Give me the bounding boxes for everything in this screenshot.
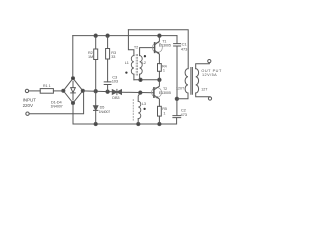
label D5 1N4007 (99, 106, 111, 114)
input terminal upper (25, 89, 28, 92)
resistor R3 (106, 36, 110, 82)
capacitor C1 (174, 36, 181, 99)
wire input lower to bridge right corner (29, 92, 83, 114)
node rail junction T1 collector (158, 34, 161, 37)
svg-text:DB3: DB3 (112, 96, 119, 100)
node rail D5 (94, 122, 97, 125)
node rail R5 (158, 122, 161, 125)
svg-text:1: 1 (163, 111, 165, 115)
svg-text:L2: L2 (142, 61, 146, 65)
phase dot L1 (125, 71, 127, 73)
transistor T2 (152, 80, 162, 107)
label C3 103 (112, 74, 119, 83)
diode D5 (94, 91, 98, 124)
transistor T1 (152, 36, 162, 64)
svg-text:12T: 12T (201, 88, 208, 92)
svg-text:120T: 120T (176, 87, 185, 91)
svg-text:1N4007: 1N4007 (51, 104, 63, 108)
svg-text:L3: L3 (142, 102, 146, 106)
node midpoint M (158, 78, 161, 81)
svg-text:220V: 220V (23, 103, 34, 108)
node C1 C2 primary (175, 97, 178, 100)
label R2 1M (88, 51, 93, 59)
label INPUT 220V (23, 98, 37, 108)
resistor R5 (158, 106, 162, 124)
svg-text:L1: L1 (125, 61, 129, 65)
wire bottom rail (73, 123, 176, 125)
inductor L2 (140, 48, 155, 80)
svg-text:1M: 1M (88, 55, 93, 59)
resistor R2 (94, 36, 98, 91)
node rail L3 (137, 122, 140, 125)
wire A trigger line (83, 91, 154, 93)
svg-text:103: 103 (112, 78, 119, 83)
core T3 (191, 68, 193, 95)
wire top rail (73, 35, 177, 37)
wire bridge bottom to ground rail (72, 103, 74, 124)
node wire A L3 (139, 91, 142, 94)
node rail junction R2 (94, 34, 97, 37)
svg-text:473: 473 (181, 47, 188, 52)
capacitor C2 (173, 99, 181, 124)
svg-text:1N4007: 1N4007 (99, 110, 111, 114)
diac DB3 (112, 89, 121, 94)
svg-text:T2: T2 (134, 46, 138, 50)
wire primary bottom to divider node (177, 93, 188, 99)
wire input upper (29, 90, 41, 92)
input terminal lower (26, 112, 29, 115)
node wire A C3 (106, 90, 109, 93)
transformer T3 secondary 12T (196, 63, 210, 97)
node midpoint L2 (139, 78, 142, 81)
wire R1 to bridge (53, 90, 63, 92)
inductor L1 (128, 30, 134, 80)
core dash L3 (132, 100, 134, 121)
core dash L1 L2 (136, 54, 137, 76)
wire midpoint (134, 79, 160, 81)
label D1-D4 1N4007 (51, 99, 63, 108)
svg-text:E13005: E13005 (159, 91, 171, 95)
label OUT PUT 12V/5A (201, 69, 222, 77)
node wire A R2/D5 (94, 90, 97, 93)
phase dot L3 (143, 108, 145, 110)
transformer T3 primary 120T (185, 69, 188, 93)
resistor R4 (158, 64, 162, 80)
svg-text:33: 33 (111, 55, 115, 59)
svg-text:12V/5A: 12V/5A (202, 73, 217, 77)
label R5 1 (162, 107, 167, 115)
inductor L3 (138, 93, 141, 124)
svg-text:473: 473 (181, 112, 188, 117)
label R3 33 (111, 51, 116, 59)
capacitor C3 (104, 82, 111, 92)
bridge rectifier D1-D4 (62, 77, 85, 105)
wire top box (128, 30, 188, 69)
svg-text:E13005: E13005 (159, 43, 171, 47)
label T2 13005 (159, 87, 171, 95)
label C1 473 (181, 42, 188, 52)
wire left drop to bridge (72, 36, 74, 79)
svg-text:R1 1: R1 1 (43, 84, 51, 88)
label R4 1 (162, 64, 167, 72)
resistor R1 (40, 89, 53, 94)
output terminal upper (208, 60, 211, 63)
phase dot L2 (144, 55, 146, 57)
svg-text:1: 1 (163, 68, 165, 72)
output terminal lower (208, 97, 211, 100)
label C2 473 (181, 108, 188, 118)
label T1 13005 (159, 40, 171, 48)
node rail junction R3 (106, 34, 109, 37)
